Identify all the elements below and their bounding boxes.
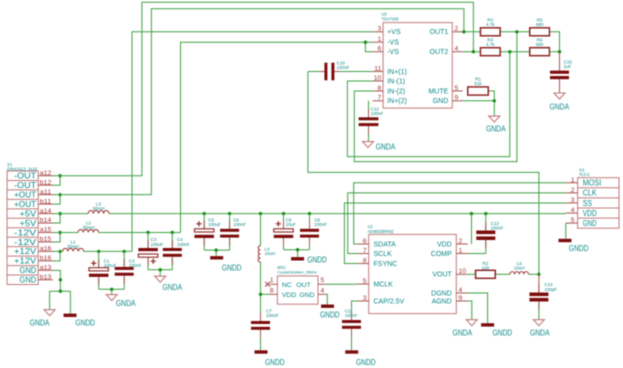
svg-text:10uH: 10uH [265,251,276,256]
C10 value label [337,61,350,71]
svg-text:CLK: CLK [583,189,597,198]
svg-text:11: 11 [374,65,381,72]
resistor R6 680 [530,48,550,56]
svg-text:4.7k: 4.7k [486,42,495,47]
svg-text:GND: GND [20,276,37,285]
capacitor C9 100nF [300,221,319,246]
GNDA label at X1 [30,319,50,328]
junctions on X1 GND net [59,278,62,293]
op-amp U2 TDA7265 body [373,23,463,109]
wire IN+(2) to C12 to GNDA [368,101,370,142]
U1 reference and value [368,224,394,234]
svg-text:9: 9 [455,95,459,102]
GNDD label at X1 [75,319,95,328]
junctions on OUT2 net [472,50,562,53]
svg-text:+OUT: +OUT [14,200,36,209]
svg-text:7: 7 [378,95,382,102]
ground GNDD at K2 [559,239,572,242]
junction oscillator VDD tap [259,293,262,296]
svg-text:IN-(2): IN-(2) [387,88,405,95]
capacitor C8 10uF [274,221,294,246]
svg-text:GND: GND [433,98,449,105]
ground GNDD at oscillator [321,305,334,308]
svg-text:2: 2 [571,187,575,194]
wire C3 C4 to -12V and GNDA [148,232,172,276]
svg-text:9: 9 [459,295,463,302]
svg-text:-VS: -VS [387,40,399,47]
svg-text:2: 2 [455,26,459,33]
ground GNDA under C12 [363,142,374,148]
resistor R2 100 [476,270,496,278]
wire net +5V rail (a14 to K2 VDD) [53,213,566,215]
svg-text:b16: b16 [40,255,52,262]
GNDA label under C1 C2 [116,299,136,308]
svg-text:5: 5 [571,217,575,224]
capacitor C6 100nF [220,221,239,246]
svg-text:4: 4 [321,287,325,294]
svg-text:GNDA: GNDA [453,328,473,337]
svg-text:+12V: +12V [14,247,37,256]
svg-text:a12: a12 [40,170,52,177]
ground GNDD under C7 [255,350,268,353]
junctions on +5V rail [203,212,488,215]
ground GNDD at DGND [481,323,494,326]
svg-text:3: 3 [363,295,367,302]
svg-text:SCLK: SCLK [374,251,393,258]
capacitor C2 100nF [115,259,134,284]
svg-text:GNDD: GNDD [356,358,376,367]
GNDD label at oscillator [320,310,340,319]
ground GNDD under C8 C9 [291,257,304,260]
wire COMP to C13 bottom [468,240,486,253]
svg-text:100nF: 100nF [491,226,504,231]
svg-text:GND: GND [583,219,597,228]
L1 value label [67,240,79,250]
inductor L1 [63,248,84,251]
svg-text:GNDD: GNDD [307,256,327,265]
svg-text:-OUT: -OUT [14,172,36,181]
svg-text:GNDA: GNDA [376,143,396,152]
svg-text:AGND: AGND [432,298,452,305]
resistor R1 51k [468,87,489,95]
wire net -12V (a15 to -VS pins) [53,42,373,232]
svg-text:100nF: 100nF [337,65,350,70]
C7 value label [266,309,279,319]
wire OUT1 to divider [463,32,560,52]
resistor R3 4.7k [480,28,500,36]
capacitor C12 100nF [359,109,379,134]
R3 value label [486,18,495,28]
capacitor C7 100nF [251,313,270,338]
svg-text:+OUT: +OUT [14,190,36,199]
svg-text:5: 5 [455,85,459,92]
C15 value label [564,60,573,70]
svg-text:IN-(1): IN-(1) [387,78,405,85]
ground GNDD under C11 [345,350,358,353]
wire VDD pin to +5V rail [471,214,473,244]
svg-text:GND: GND [20,266,37,275]
GNDA label under C14 [530,328,550,337]
svg-text:b12: b12 [40,179,52,186]
svg-text:4: 4 [459,287,463,294]
svg-text:a14: a14 [40,208,52,215]
svg-text:COMP: COMP [431,251,452,258]
capacitor C11 100nF [342,312,361,337]
wire K2 GND to GNDD [565,223,567,239]
svg-text:680: 680 [536,42,544,47]
svg-text:6: 6 [363,238,367,245]
wire net +OUT (a11 to OUT1) [53,9,464,195]
wire C1 C2 to +12V and GNDA [99,251,125,294]
wire oscillator GND to GNDD [326,294,327,304]
GNDD label under C11 [356,358,376,367]
R4 value label [486,38,495,48]
svg-text:51k: 51k [474,81,482,86]
L2 value label [82,220,94,230]
svg-text:MCLK: MCLK [374,281,394,288]
R6 value label [536,38,544,48]
K2 reference and value [579,168,590,178]
svg-text:a15: a15 [40,227,52,234]
wire net MOSI (K2-1 to SDATA) [354,183,566,244]
svg-text:680: 680 [536,22,544,27]
GNDA label beside C12 ground [376,143,396,152]
svg-text:10: 10 [459,268,467,275]
MX1 reference and value [277,265,317,274]
svg-text:30mH: 30mH [92,206,104,211]
svg-text:VDD: VDD [282,292,296,299]
ground GNDD under C5 C6 [210,256,223,259]
C1 value label [104,259,117,269]
svg-text:8: 8 [270,287,274,294]
svg-text:+VS: +VS [387,29,401,36]
capacitor C14 100pF [529,285,548,310]
wire signal input to IN+(1) through C10 [308,72,539,275]
connector X1 DIN41612_2x16 [7,171,53,285]
svg-text:100pF: 100pF [544,287,557,292]
wire +5V branch through L4 to oscillator VDD and C7 [261,214,270,351]
GNDD label under C5 C6 [222,264,242,273]
svg-text:DGND: DGND [431,290,452,297]
wire net +12V (a16 to +VS) [53,32,373,252]
svg-text:CAP/2.5V: CAP/2.5V [374,298,405,305]
C11 value label [345,309,358,319]
wire net CLK (K2-2 to SCLK) [348,193,566,254]
svg-text:100nF: 100nF [129,263,142,268]
svg-text:GND: GND [299,292,314,299]
ground GNDA at AGND [466,320,477,326]
svg-text:VOUT: VOUT [432,272,452,279]
U2 pin numbers [374,26,459,102]
GNDD label at DGND [493,328,513,337]
svg-text:OUT1: OUT1 [430,29,449,36]
svg-text:10uH: 10uH [514,266,525,271]
svg-text:GNDD: GNDD [75,319,95,328]
C12 value label [371,107,384,117]
oscillator MX1 CrystalOscillator_25MHz [270,276,326,304]
junctions on +12V line [97,250,126,253]
svg-text:-12V: -12V [14,228,37,237]
ground GNDD at X1 [64,314,77,317]
svg-text:GNDA: GNDA [30,319,50,328]
wire OUT2 to divider [463,51,560,53]
svg-text:b13: b13 [40,274,52,281]
capacitor C5 100uF [194,221,214,246]
inductor L4 [258,246,260,262]
svg-text:PLS-5: PLS-5 [579,172,590,177]
svg-text:TDA7265: TDA7265 [382,16,400,21]
C14 value label [544,282,557,292]
svg-text:OUT2: OUT2 [430,49,449,56]
svg-text:+5V: +5V [20,219,37,228]
svg-text:1: 1 [459,247,463,254]
svg-text:a11: a11 [40,189,52,196]
inductor L5 [510,272,529,275]
svg-text:CrystalOscillator_25MHz: CrystalOscillator_25MHz [277,271,317,275]
IC U1 AD9833BRMZ body [357,234,467,313]
junction VOUT filter node [537,273,540,276]
svg-text:IN+(2): IN+(2) [387,98,407,105]
capacitor C1 100uF [89,260,109,285]
svg-text:IN+(1): IN+(1) [387,69,407,76]
svg-text:OUT: OUT [296,282,310,289]
svg-text:a13: a13 [40,265,52,272]
svg-text:30mH: 30mH [67,244,79,249]
svg-text:-12V: -12V [14,238,37,247]
X1 reference designator and value [7,162,38,171]
svg-text:b11: b11 [40,198,52,205]
GNDA label under C15 [550,102,570,111]
svg-text:2uF: 2uF [564,64,572,69]
svg-text:GNDA: GNDA [550,102,570,111]
svg-text:5: 5 [363,278,367,285]
ground GNDA under C3 C4 [155,276,166,282]
C8 value label [286,217,297,227]
junction C3 C4 ground joint [159,268,162,271]
wire C8 C9 to +5V rail and GNDD [284,214,310,258]
svg-text:1: 1 [378,36,382,43]
inductor L3 [88,211,109,214]
svg-text:4: 4 [571,207,575,214]
svg-text:MUTE: MUTE [428,88,448,95]
svg-text:GNDA: GNDA [530,328,550,337]
wire ties b-rows to a-rows at X1 [53,176,60,261]
svg-text:4.7k: 4.7k [486,22,495,27]
ground GNDA at X1 [44,310,55,316]
svg-text:VDD: VDD [437,241,452,248]
capacitor C10 100nF [319,63,339,81]
GNDD label under C8 C9 [307,256,327,265]
svg-text:1: 1 [571,177,575,184]
C2 value label [129,259,142,269]
junction C5 C6 ground joint [215,248,218,251]
svg-text:GNDA: GNDA [163,283,183,292]
svg-text:MX1: MX1 [277,265,286,270]
svg-text:NC: NC [282,282,292,289]
resistor R5 680 [530,28,550,36]
svg-text:100uF: 100uF [151,242,164,247]
svg-text:b15: b15 [40,236,52,243]
junction C8 C9 ground joint [296,248,299,251]
C6 value label [233,217,246,227]
svg-text:10: 10 [374,75,382,82]
ground GNDA under C14 [533,320,544,326]
C4 value label [177,237,190,247]
capacitor C13 100nF [476,223,495,249]
svg-text:100nF: 100nF [266,313,279,318]
wire feedback IN-(1) loop to OUT2 divider [347,52,509,157]
svg-text:100nF: 100nF [177,242,190,247]
L4 value label [265,247,276,257]
C13 value label [491,221,504,231]
wire net SS (K2-3 to FSYNC) [344,203,565,264]
junctions on -12V line [146,41,367,235]
svg-text:+5V: +5V [20,209,37,218]
R5 value label [536,18,544,28]
ground GNDA under C15 [554,93,565,99]
wire VOUT filter chain [468,273,539,275]
svg-text:100nF: 100nF [345,313,358,318]
svg-text:6: 6 [378,46,382,53]
svg-text:GNDD: GNDD [265,358,285,367]
svg-text:3: 3 [378,26,382,33]
R2 value label [482,261,490,271]
C5 value label [208,217,221,227]
svg-text:100nF: 100nF [233,222,246,227]
svg-text:b14: b14 [40,217,52,224]
X1 pin numbers a12-b13 [40,170,52,281]
R1 value label [474,77,482,87]
connector K2 PLS-5 [566,178,619,229]
wire C5 C6 to +5V rail and GNDD [204,214,229,257]
GNDD label under C7 [265,358,285,367]
svg-text:3: 3 [571,197,575,204]
svg-text:GNDD: GNDD [569,244,589,253]
wire C14 to filter node and GNDA [538,274,540,319]
capacitor C4 100nF [163,240,182,265]
wire CAP/2.5V to C11 to GNDD [352,301,358,350]
resistor R4 4.7k [480,48,500,56]
wire AGND to GNDA [468,301,472,320]
wire net GND at X1 [50,270,71,313]
U2 reference and value [382,12,400,22]
svg-text:100uF: 100uF [208,222,221,227]
svg-text:-VS: -VS [387,49,399,56]
svg-text:-OUT: -OUT [14,181,36,190]
svg-text:4: 4 [455,46,459,53]
svg-text:100: 100 [482,266,490,271]
svg-text:a16: a16 [40,246,52,253]
svg-text:+12V: +12V [14,257,37,266]
junctions on OUT1 net [462,30,518,33]
GNDA label at amplifier GND pin [486,125,506,134]
capacitor C3 100uF [138,240,158,265]
inductor L2 [78,230,98,233]
svg-text:GNDA: GNDA [116,299,136,308]
svg-text:8: 8 [363,257,367,264]
C9 value label [314,217,327,227]
ground GNDA at amplifier GND pin [489,116,500,122]
svg-text:DIN41612_2x16: DIN41612_2x16 [7,166,38,171]
svg-text:100uF: 100uF [104,263,117,268]
svg-text:GNDD: GNDD [493,328,513,337]
svg-text:SDATA: SDATA [374,241,397,248]
wire C13 top to +5V rail [485,214,487,231]
wire MUTE through R1 to GND pin [463,91,495,116]
junction C1 C2 ground joint [110,288,113,291]
svg-text:5: 5 [321,277,325,284]
svg-text:100nF: 100nF [371,111,384,116]
svg-text:2: 2 [459,238,463,245]
capacitor C15 2uF [550,63,569,88]
L5 value label [514,261,525,271]
C3 value label [151,237,164,247]
junctions at X1 a-row ties [58,174,61,253]
junction MUTE ground node [493,99,496,102]
svg-text:1: 1 [270,277,274,284]
ground GNDA under C1 C2 [106,295,117,301]
L3 value label [92,202,104,212]
GNDA label under C3 C4 [163,283,183,292]
wire C15 to OUT2 node and GNDA [559,52,561,93]
svg-text:VDD: VDD [583,209,597,218]
wire DGND to GNDD [468,293,488,323]
svg-text:30mH: 30mH [82,225,94,230]
wire net -OUT (a12 to OUT2) [53,2,473,175]
svg-text:GNDD: GNDD [222,264,242,273]
svg-text:100nF: 100nF [314,222,327,227]
MX1 no-connect cross on pin 1 [265,282,270,287]
svg-text:8: 8 [378,85,382,92]
svg-text:SS: SS [583,199,592,208]
svg-text:MOSI: MOSI [583,179,601,188]
MX1 pin numbers [270,277,325,294]
wire feedback IN-(2) loop to OUT1 divider [354,32,517,162]
svg-text:10uF: 10uF [286,222,297,227]
svg-text:GNDA: GNDA [486,125,506,134]
U1 pin numbers [363,238,467,302]
svg-text:GNDD: GNDD [320,310,340,319]
GNDD label at K2 [569,244,589,253]
wire oscillator OUT to MCLK [326,283,357,285]
K2 pin numbers [571,177,575,224]
svg-text:FSYNC: FSYNC [374,261,398,268]
svg-text:AD9833BRMZ: AD9833BRMZ [368,229,394,234]
svg-text:7: 7 [363,247,367,254]
GNDA label at AGND [453,328,473,337]
